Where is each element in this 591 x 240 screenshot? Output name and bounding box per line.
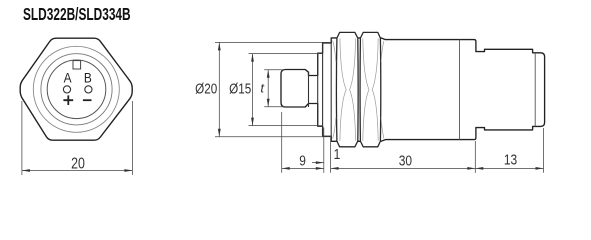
bottom dimensions bbox=[282, 112, 544, 173]
left shoulder facet curve bbox=[333, 41, 336, 63]
ext line hex start bbox=[330, 138, 332, 173]
svg-text:9: 9 bbox=[299, 152, 306, 169]
key notch bbox=[73, 61, 81, 69]
body seam bbox=[459, 40, 461, 140]
dim text 9 bbox=[299, 152, 306, 169]
dim line 9 bbox=[282, 167, 324, 169]
lobe2 chamfer curves bbox=[363, 39, 369, 141]
svg-text:13: 13 bbox=[504, 151, 517, 168]
hex nut outline (front view octagon) bbox=[20, 38, 132, 140]
pin B circle bbox=[85, 86, 92, 93]
svg-text:1: 1 bbox=[334, 146, 341, 163]
ext line thread tip bbox=[281, 112, 283, 173]
pin label B bbox=[84, 70, 92, 86]
thread end face edge bbox=[308, 72, 310, 107]
dimension line bbox=[22, 170, 132, 172]
dimension Ø15 bbox=[249, 54, 323, 126]
svg-text:A: A bbox=[64, 70, 72, 86]
leader for 1 bbox=[312, 162, 323, 164]
svg-text:B: B bbox=[84, 70, 92, 86]
minus symbol bbox=[83, 99, 92, 101]
hex facet lobe 2 bbox=[360, 32, 381, 146]
extension line left bbox=[21, 101, 23, 175]
dim text 30 bbox=[399, 152, 413, 169]
dimension t bbox=[264, 70, 284, 107]
flange O15/O20 boundary edge bbox=[322, 43, 324, 136]
flange O15 left face edge bbox=[317, 53, 319, 126]
body outline with thread stub bbox=[281, 38, 545, 141]
dim text 13 bbox=[504, 151, 517, 168]
arrow right bbox=[124, 169, 132, 172]
dimension 20 (left view) bbox=[22, 101, 132, 175]
extension line right bbox=[131, 101, 133, 175]
hex facet lobe 1 bbox=[336, 32, 358, 146]
arrows bottom bbox=[282, 167, 290, 170]
ext line cap end bbox=[543, 128, 545, 173]
ext line flange P1/P2 bbox=[323, 128, 325, 173]
right shoulder facet curve bbox=[381, 41, 384, 62]
face circle bbox=[47, 60, 106, 119]
pin label A bbox=[64, 70, 72, 86]
dim text 20 bbox=[71, 154, 85, 172]
hex left boundary edge bbox=[330, 38, 332, 141]
cap seam bbox=[534, 53, 536, 127]
lobe1 chamfer curves bbox=[333, 39, 384, 141]
dim text 1 bbox=[334, 146, 341, 163]
dim line 30 bbox=[331, 167, 476, 169]
plus symbol bbox=[63, 95, 73, 105]
ext line body end bbox=[474, 141, 476, 173]
chamfer circle bbox=[33, 46, 119, 132]
svg-text:Ø20: Ø20 bbox=[195, 80, 217, 97]
title SLD322B/SLD334B bbox=[23, 5, 131, 25]
part silhouette bbox=[281, 38, 545, 141]
svg-text:30: 30 bbox=[399, 152, 413, 169]
arrow left bbox=[22, 169, 30, 172]
svg-text:SLD322B/SLD334B: SLD322B/SLD334B bbox=[23, 5, 131, 25]
dimension Ø20 bbox=[215, 42, 331, 136]
svg-text:Ø15: Ø15 bbox=[229, 80, 251, 97]
shell circle bbox=[41, 54, 112, 125]
svg-text:20: 20 bbox=[71, 154, 85, 172]
dim line 13 bbox=[475, 167, 543, 169]
svg-text:t: t bbox=[260, 81, 265, 96]
pin A circle bbox=[63, 86, 70, 93]
